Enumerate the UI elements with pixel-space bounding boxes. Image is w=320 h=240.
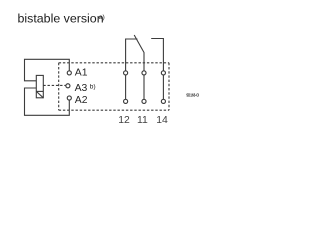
svg-text:14: 14 [156, 115, 168, 126]
svg-text:bistable version: bistable version [18, 11, 104, 25]
pin 14 lower terminal [161, 99, 165, 103]
svg-text:11: 11 [137, 115, 148, 126]
pin 11 internal wire [143, 75, 145, 100]
pin label 11 [137, 115, 148, 126]
svg-text:a): a) [99, 14, 105, 21]
pin 11 lower terminal [142, 99, 146, 103]
svg-text:A3: A3 [75, 83, 88, 94]
label A1 [75, 68, 88, 79]
pin label 14 [156, 115, 168, 126]
pin 12 internal wire [125, 75, 127, 100]
terminal A2 [67, 96, 71, 100]
label A2 [75, 95, 88, 106]
contact blade (common 11) [134, 35, 144, 71]
footnote marker a) [99, 14, 105, 21]
pin 12 upper terminal [124, 71, 128, 75]
pin 14 internal wire [162, 75, 164, 100]
terminal A1 [67, 71, 71, 75]
pin 14 upper terminal [161, 71, 165, 75]
svg-text:12: 12 [118, 115, 130, 126]
wire: coil to terminal A3 (dashed) [43, 84, 66, 86]
contact 14: NO seat and riser [151, 39, 163, 71]
label A3 with footnote b) [75, 83, 96, 94]
contact 12: NC seat and riser [126, 39, 138, 71]
pin 11 upper terminal [142, 71, 146, 75]
dashed enclosure box [59, 63, 169, 110]
drawing code SD163-CI [186, 93, 199, 98]
title: bistable version [18, 11, 104, 25]
svg-text:A1: A1 [75, 68, 88, 79]
svg-text:A2: A2 [75, 95, 88, 106]
pin 12 lower terminal [124, 99, 128, 103]
terminal A3 [66, 84, 70, 88]
svg-text:SD163-CI: SD163-CI [186, 93, 199, 98]
pin label 12 [118, 115, 130, 126]
coil (bistable, rectangle with diagonal-marked base) [36, 75, 43, 97]
coil housing outline (solid, with left notch) [25, 59, 70, 115]
svg-text:b): b) [90, 83, 96, 90]
